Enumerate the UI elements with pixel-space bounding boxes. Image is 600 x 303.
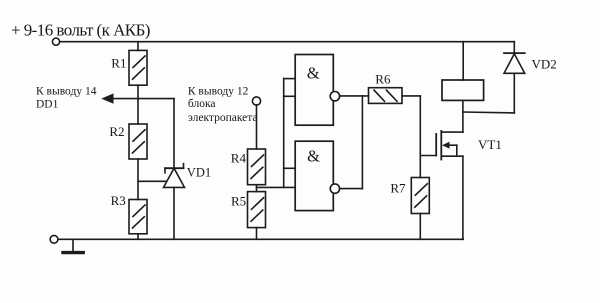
wire terminal to R4 bbox=[256, 105, 258, 149]
svg-text:R2: R2 bbox=[109, 124, 124, 139]
wire R7 bottom bbox=[419, 214, 421, 240]
svg-text:К выводу 12: К выводу 12 bbox=[188, 86, 249, 98]
svg-text:R6: R6 bbox=[375, 72, 391, 87]
wire relay top bbox=[462, 42, 464, 80]
svg-text:R4: R4 bbox=[231, 150, 247, 165]
svg-text:R1: R1 bbox=[111, 55, 126, 70]
resistor R3 bbox=[129, 200, 147, 234]
svg-text:+ 9-16 вольт (к АКБ): + 9-16 вольт (к АКБ) bbox=[11, 20, 150, 39]
gate U1.1 NAND bbox=[295, 55, 339, 126]
wire gate2 input a bbox=[284, 167, 296, 169]
diode VD2 bbox=[504, 42, 525, 74]
wire VD1 anode drop bbox=[173, 187, 175, 239]
wire source down bbox=[462, 156, 464, 239]
svg-text:R3: R3 bbox=[111, 193, 126, 208]
relay K1 coil bbox=[442, 80, 484, 100]
wire drain up to relay bbox=[462, 100, 464, 132]
svg-text:К выводу 14: К выводу 14 bbox=[36, 85, 97, 97]
wire R3 bottom bbox=[137, 234, 139, 240]
svg-text:VD2: VD2 bbox=[532, 56, 557, 71]
wire bottom rail bbox=[58, 238, 464, 240]
wire gate1 output bbox=[340, 95, 369, 97]
svg-text:VT1: VT1 bbox=[478, 137, 502, 152]
wire R6 right bbox=[402, 95, 420, 97]
wire input bus bbox=[283, 79, 285, 188]
resistor R6 bbox=[369, 88, 403, 104]
wire R1 top drop bbox=[137, 42, 139, 51]
resistor R4 bbox=[248, 149, 266, 185]
wire tee to mosfet gate bbox=[420, 155, 436, 157]
wire gate2 output bbox=[340, 188, 363, 190]
gate U1.2 NAND bbox=[295, 141, 339, 210]
wire VD2 anode return bbox=[463, 111, 514, 114]
wire R5 bottom bbox=[256, 228, 258, 240]
svg-text:R5: R5 bbox=[231, 194, 246, 209]
diode VD1 zener bbox=[164, 164, 185, 188]
wire R1-R2 bbox=[137, 85, 139, 124]
svg-text:&: & bbox=[307, 146, 320, 165]
wire VD1 cathode drop bbox=[173, 99, 175, 169]
svg-text:электропакета: электропакета bbox=[188, 112, 258, 124]
wire gate1 input a bbox=[284, 78, 296, 80]
svg-text:VD1: VD1 bbox=[187, 165, 211, 179]
wire to DD1 arrow bbox=[110, 98, 174, 100]
resistor R5 bbox=[248, 192, 266, 228]
node DD1 arrow bbox=[101, 93, 113, 103]
wire junction to gate2 input bbox=[257, 186, 296, 188]
node terminal bottom-left bbox=[50, 235, 58, 243]
wire gate column bbox=[419, 96, 421, 178]
wire VD2 vertical bbox=[513, 73, 515, 113]
wire tee to VD1 bbox=[138, 180, 170, 182]
wire gate1 input b bbox=[284, 95, 296, 97]
wire R2-R3 bbox=[137, 159, 139, 200]
transistor VT1 MOSFET bbox=[436, 131, 463, 160]
svg-text:блока: блока bbox=[188, 98, 216, 110]
svg-text:DD1: DD1 bbox=[36, 98, 59, 110]
wire top rail +9-16V bbox=[59, 41, 514, 43]
wire R4-R5 junction bbox=[256, 185, 258, 192]
svg-text:&: & bbox=[307, 63, 320, 82]
wire output node vertical bbox=[361, 96, 363, 189]
resistor R7 bbox=[411, 178, 429, 214]
node terminal top-left bbox=[52, 38, 59, 45]
resistor R1 bbox=[129, 50, 147, 85]
ground bbox=[63, 239, 83, 252]
resistor R2 bbox=[129, 124, 147, 159]
node terminal K12 bbox=[252, 97, 260, 105]
svg-text:R7: R7 bbox=[390, 181, 406, 196]
